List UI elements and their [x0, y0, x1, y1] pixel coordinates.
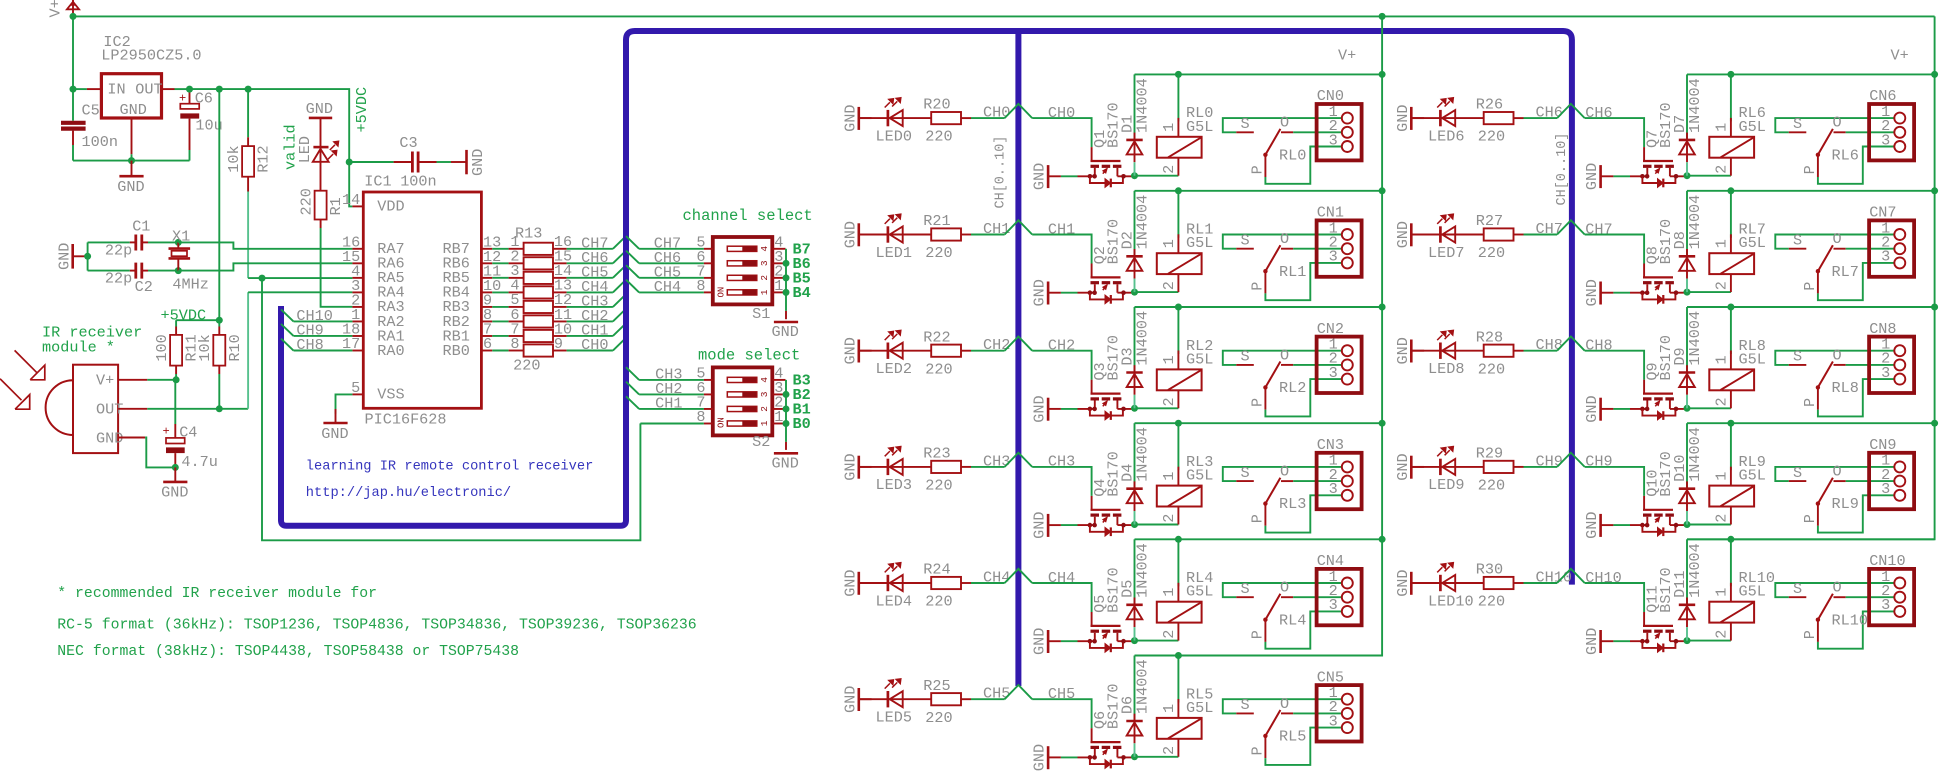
wire GND to Q11 source: [1613, 640, 1630, 642]
wire S1 commons to GND: [785, 249, 787, 311]
pin IC1 RB5 (11): [481, 277, 492, 279]
diode D2 1N4004: [1134, 191, 1136, 255]
connector CN3: [1317, 453, 1362, 509]
wire CH7 bus to gate: [1585, 235, 1644, 264]
svg-text:S: S: [1241, 348, 1250, 366]
ground GND (C4): [174, 467, 176, 482]
svg-text:GND: GND: [1394, 453, 1412, 480]
svg-text:LED6: LED6: [1428, 127, 1464, 145]
ground GND (Q5): [1047, 630, 1050, 653]
svg-text:RL5: RL5: [1279, 728, 1306, 746]
svg-text:1N4004: 1N4004: [1133, 543, 1151, 598]
svg-text:CH1: CH1: [1048, 220, 1075, 238]
svg-text:CH1: CH1: [983, 220, 1010, 238]
svg-text:CN0: CN0: [1317, 87, 1344, 105]
svg-text:LED9: LED9: [1428, 476, 1464, 494]
svg-text:LED3: LED3: [876, 476, 912, 494]
svg-text:C6: C6: [195, 89, 213, 107]
svg-text:220: 220: [1478, 244, 1505, 262]
capacitor C3 100n: [349, 161, 393, 163]
relay RL1 coil G5L: [1177, 191, 1179, 238]
supply symbol V+ (top left): [67, 2, 79, 10]
node rail-junction RL0: [1175, 71, 1182, 78]
ground GND (LED4): [857, 572, 860, 595]
resistor R13 element 2: [492, 262, 508, 264]
node R12 top: [245, 86, 252, 93]
svg-text:CH0: CH0: [1048, 104, 1075, 122]
node rail-junction RL5: [1175, 652, 1182, 659]
relay RL6 contact S-O-P: [1775, 118, 1894, 132]
LED valid: [320, 119, 322, 191]
svg-text:CH8: CH8: [1536, 336, 1563, 354]
svg-text:+: +: [163, 425, 170, 439]
svg-text:1N4004: 1N4004: [1133, 659, 1151, 714]
svg-text:1: 1: [759, 289, 770, 295]
pin IC1 RA1 (18): [352, 335, 363, 337]
svg-text:O: O: [1833, 230, 1842, 248]
svg-text:CN9: CN9: [1869, 436, 1896, 454]
svg-text:P: P: [1249, 282, 1267, 291]
svg-text:OUT: OUT: [135, 80, 162, 98]
diode D6 1N4004: [1134, 656, 1136, 720]
svg-text:G5L: G5L: [1186, 350, 1213, 368]
svg-text:100n: 100n: [82, 133, 118, 151]
wire CH9 to bus: [1524, 466, 1558, 468]
pin IC1 RA5 (4): [352, 277, 363, 279]
svg-text:GND: GND: [1031, 628, 1049, 655]
svg-text:GND: GND: [1583, 395, 1601, 422]
svg-text:R28: R28: [1476, 328, 1503, 346]
wire GND to Q8 source: [1613, 292, 1630, 294]
svg-text:CH[0..10]: CH[0..10]: [994, 136, 1009, 209]
svg-text:2: 2: [1160, 397, 1178, 406]
svg-text:CH8: CH8: [296, 336, 323, 354]
svg-text:S: S: [1241, 232, 1250, 250]
svg-text:VSS: VSS: [377, 385, 404, 403]
svg-text:3: 3: [1329, 364, 1338, 382]
bus ripper CH6: [1557, 104, 1585, 118]
wire GND to Q5 source: [1061, 640, 1078, 642]
svg-text:GND: GND: [772, 323, 799, 341]
svg-text:CH7: CH7: [1585, 220, 1612, 238]
pin IC1 RA3 (2): [352, 306, 363, 308]
svg-text:1: 1: [1160, 704, 1178, 713]
svg-text:10k: 10k: [196, 334, 214, 361]
svg-text:220: 220: [1478, 360, 1505, 378]
svg-text:2: 2: [1713, 514, 1731, 523]
pin IC1 RB0 (6): [481, 350, 492, 352]
svg-text:S: S: [1793, 115, 1802, 133]
svg-text:22p: 22p: [105, 269, 132, 287]
wire crystal to RA6: [178, 263, 352, 270]
svg-text:CN7: CN7: [1869, 204, 1896, 222]
relay RL3 coil G5L: [1177, 423, 1179, 470]
wire GND to Q9 source: [1613, 408, 1630, 410]
connector CN9: [1869, 453, 1914, 509]
svg-text:GND: GND: [1583, 163, 1601, 190]
node drain junction ch8: [1684, 405, 1691, 412]
node +5V at C6: [186, 86, 193, 93]
svg-text:8: 8: [696, 277, 705, 295]
resistor R22: [931, 345, 961, 357]
diode D10 1N4004: [1686, 423, 1688, 487]
bus ripper CH0: [1005, 104, 1033, 118]
wire V+ rail channel 0: [1135, 73, 1383, 75]
svg-text:P: P: [1249, 746, 1267, 755]
node drain junction ch6: [1684, 172, 1691, 179]
svg-text:P: P: [1249, 165, 1267, 174]
wire +5VDC node: [176, 319, 219, 321]
S1 element 4: [727, 246, 757, 251]
wire CH10 bus to gate: [1585, 583, 1644, 612]
relay RL5 contact S-O-P: [1223, 699, 1342, 713]
node module V+: [173, 376, 180, 383]
svg-text:NEC format (38kHz): TSOP4438,: NEC format (38kHz): TSOP4438, TSOP58438 …: [57, 644, 519, 660]
ground GND (LED9): [1410, 456, 1413, 479]
svg-text:S: S: [1241, 696, 1250, 714]
svg-text:4: 4: [759, 377, 770, 383]
svg-text:2: 2: [1713, 630, 1731, 639]
diode D3 1N4004: [1134, 307, 1136, 371]
svg-text:V+: V+: [47, 0, 65, 18]
connector CN10: [1869, 569, 1914, 625]
bus ripper CH9: [281, 324, 294, 336]
svg-text:CH4: CH4: [983, 569, 1010, 587]
svg-text:RL1: RL1: [1279, 263, 1306, 281]
wire LED4 row: [859, 582, 931, 584]
ground GND (LED6): [1410, 107, 1413, 130]
svg-text:G5L: G5L: [1186, 583, 1213, 601]
S2 element 2: [727, 406, 757, 411]
svg-text:RL9: RL9: [1832, 495, 1859, 513]
wire RA5 to S2 pin 8: [640, 422, 704, 424]
wire CH1 bus to gate: [1032, 235, 1091, 264]
pin S2 4 / net B3: [772, 379, 785, 381]
wire V+ rail channel 8: [1687, 306, 1935, 308]
ground GND (Q11): [1599, 630, 1602, 653]
wire CH3 bus to gate: [1032, 467, 1091, 496]
svg-text:G5L: G5L: [1186, 467, 1213, 485]
svg-text:CH5: CH5: [983, 685, 1010, 703]
capacitor C2 22p: [88, 270, 130, 272]
IR receiver module body: [73, 365, 118, 453]
resistor R1 220: [315, 191, 327, 220]
svg-text:C1: C1: [132, 218, 150, 236]
relay RL7 coil G5L: [1730, 191, 1732, 238]
wire CH9 bus to gate: [1585, 467, 1644, 496]
svg-text:LED4: LED4: [876, 592, 912, 610]
svg-text:GND: GND: [1394, 221, 1412, 248]
wire V+ rail channel 5: [1135, 655, 1383, 657]
bus ripper CH0 (into bus): [613, 338, 626, 351]
wire S2 commons to GND: [785, 380, 787, 442]
transistor Q7 BS170: [1643, 147, 1645, 161]
wire crystal to RA7: [178, 242, 352, 248]
wire LED10 row: [1411, 582, 1483, 584]
wire GND to Q10 source: [1613, 524, 1630, 526]
bus ripper CH5 (into bus): [613, 265, 626, 278]
transistor Q5 BS170: [1091, 612, 1093, 626]
capacitor C4 4.7u: [174, 380, 176, 424]
svg-text:GND: GND: [55, 243, 73, 270]
svg-text:10k: 10k: [225, 145, 243, 172]
svg-text:1: 1: [1160, 355, 1178, 364]
wire GND to Q7 source: [1613, 175, 1630, 177]
resistor R13 element 8: [492, 350, 508, 352]
pin S1 4 / net B7: [772, 248, 785, 250]
svg-text:2: 2: [1160, 746, 1178, 755]
resistor R27: [1484, 228, 1514, 240]
svg-text:1N4004: 1N4004: [1686, 311, 1704, 366]
svg-text:CH1: CH1: [655, 394, 682, 412]
svg-text:S: S: [1241, 464, 1250, 482]
transistor Q4 BS170: [1091, 496, 1093, 510]
LED LED1: [887, 226, 890, 242]
ground GND (Q7): [1599, 165, 1602, 188]
resistor R13 element 7: [492, 335, 508, 337]
pin IC1 RB2 (8): [481, 320, 492, 322]
svg-text:+5VDC: +5VDC: [353, 87, 371, 133]
svg-text:RL2: RL2: [1279, 379, 1306, 397]
svg-text:1N4004: 1N4004: [1133, 311, 1151, 366]
svg-text:RB0: RB0: [443, 342, 470, 360]
svg-text:1N4004: 1N4004: [1133, 78, 1151, 133]
svg-text:3: 3: [1329, 712, 1338, 730]
bus ripper CH5: [1005, 685, 1033, 699]
svg-text:RL3: RL3: [1279, 495, 1306, 513]
wire LED3 row: [859, 466, 931, 468]
svg-text:CN5: CN5: [1317, 668, 1344, 686]
wire LED7 row: [1411, 234, 1483, 236]
svg-text:GND: GND: [1394, 337, 1412, 364]
node rail-junction V+ ch3: [1379, 420, 1386, 427]
svg-text:O: O: [1833, 579, 1842, 597]
ground GND (LED3): [857, 456, 860, 479]
pin IC1 RB3 (9): [481, 306, 492, 308]
connector CN1: [1317, 220, 1362, 276]
pin IC1 RB6 (12): [481, 262, 492, 264]
svg-text:2: 2: [1713, 281, 1731, 290]
LED LED3: [887, 459, 890, 475]
capacitor C6 10u: [189, 89, 191, 104]
ground GND (Q4): [1047, 514, 1050, 537]
wire GND to Q1 source: [1061, 175, 1078, 177]
svg-text:GND: GND: [120, 101, 147, 119]
node rail-junction RL1: [1175, 187, 1182, 194]
pin S1 3 / net B6: [772, 262, 785, 264]
wire drain junction to relay pin 2: [1135, 175, 1179, 177]
svg-text:1: 1: [1713, 123, 1731, 132]
svg-text:S1: S1: [752, 305, 770, 323]
ground GND (IC2): [131, 161, 133, 177]
svg-text:3: 3: [1881, 131, 1890, 149]
bus ripper CH4: [1005, 569, 1033, 583]
pin IC1 RB7 (13): [481, 248, 492, 250]
ground GND (Q6): [1047, 746, 1050, 769]
svg-text:3: 3: [1329, 248, 1338, 266]
svg-text:4: 4: [759, 246, 770, 252]
wire LED6 row: [1411, 117, 1483, 119]
svg-text:6: 6: [483, 335, 492, 353]
resistor R28: [1484, 345, 1514, 357]
wire V+ rail channel 9: [1687, 422, 1935, 424]
diode D11 1N4004: [1686, 539, 1688, 603]
wire LED1 row: [859, 234, 931, 236]
svg-text:CH9: CH9: [1536, 452, 1563, 470]
transistor Q10 BS170: [1643, 496, 1645, 510]
svg-text:1: 1: [1713, 472, 1731, 481]
svg-text:G5L: G5L: [1739, 350, 1766, 368]
svg-text:220: 220: [925, 244, 952, 262]
svg-text:IC1: IC1: [364, 172, 391, 190]
wire CH0 bus to gate: [1032, 118, 1091, 147]
wire GND mini-rail under IC2: [73, 160, 190, 162]
svg-text:P: P: [1801, 514, 1819, 523]
node rail-junction V+ ch9: [1931, 420, 1938, 427]
wire CH2 to S2 pin 6: [626, 382, 639, 395]
svg-text:R20: R20: [923, 96, 950, 114]
node rail-junction RL3: [1175, 420, 1182, 427]
wire CH1 to bus: [971, 234, 1005, 236]
svg-text:IN: IN: [107, 80, 125, 98]
node crystal gnd: [84, 253, 91, 260]
svg-text:3: 3: [1881, 248, 1890, 266]
wire CH4 bus to gate: [1032, 583, 1091, 612]
pin IC1 RB4 (10): [481, 291, 492, 293]
ground GND (LED7): [1410, 223, 1413, 246]
svg-text:V+: V+: [1891, 47, 1909, 65]
svg-text:1: 1: [1160, 472, 1178, 481]
svg-text:GND: GND: [1583, 512, 1601, 539]
svg-text:RL4: RL4: [1279, 611, 1306, 629]
svg-text:22p: 22p: [105, 242, 132, 260]
wire GND to Q2 source: [1061, 292, 1078, 294]
svg-text:CH4: CH4: [654, 278, 681, 296]
node rail-junction RL2: [1175, 304, 1182, 311]
svg-text:P: P: [1249, 514, 1267, 523]
node C4 gnd: [172, 464, 179, 471]
svg-text:R22: R22: [923, 328, 950, 346]
LED LED9: [1439, 459, 1442, 475]
S1 element 2: [727, 275, 757, 280]
svg-text:GND: GND: [321, 425, 348, 443]
resistor R23: [931, 461, 961, 473]
svg-text:RL8: RL8: [1832, 379, 1859, 397]
svg-text:P: P: [1801, 630, 1819, 639]
wire LED5 row: [859, 698, 931, 700]
relay RL4 coil G5L: [1177, 539, 1179, 586]
LED LED4: [887, 575, 890, 591]
wire +5V rail to PIC: [190, 89, 353, 206]
power net V+ top rail: [73, 15, 1935, 17]
bus ripper CH9: [1557, 453, 1585, 467]
svg-text:S: S: [1793, 232, 1802, 250]
bus ripper CH2: [1005, 337, 1033, 351]
bus ripper CH8: [1557, 337, 1585, 351]
node IC2 input: [70, 86, 77, 93]
resistor R25: [931, 693, 961, 705]
wire IC2 OUT pin: [162, 88, 175, 90]
svg-text:GND: GND: [841, 686, 859, 713]
ground GND (S1): [785, 311, 787, 319]
wire V+ rail channel 4: [1135, 538, 1383, 540]
svg-text:O: O: [1280, 579, 1289, 597]
connector CN4: [1317, 569, 1362, 625]
svg-text:C5: C5: [82, 102, 100, 120]
IR ray arrow 1: [15, 350, 37, 372]
S1 element 1: [727, 290, 757, 295]
svg-text:CN2: CN2: [1317, 320, 1344, 338]
pin IC1 VSS 5: [352, 393, 363, 395]
wire CH7 to S1 pin 5: [626, 236, 639, 249]
wire drain junction to relay pin 2: [1687, 407, 1731, 409]
bus ripper CH3 (into bus): [613, 294, 626, 307]
svg-text:220: 220: [925, 128, 952, 146]
svg-text:R25: R25: [923, 677, 950, 695]
svg-text:RL0: RL0: [1279, 146, 1306, 164]
svg-text:RL10: RL10: [1832, 611, 1868, 629]
svg-text:2: 2: [1160, 281, 1178, 290]
svg-text:S: S: [1793, 580, 1802, 598]
bus ripper CH8: [281, 339, 294, 351]
svg-text:3: 3: [759, 260, 770, 266]
svg-text:GND: GND: [1583, 628, 1601, 655]
ground GND (LED5): [857, 688, 860, 711]
wire CH3 to S2 pin 5: [626, 367, 639, 380]
node rail-junction RL7: [1727, 187, 1734, 194]
LED LED2: [887, 343, 890, 359]
pin IC1 RA0 (17): [352, 350, 363, 352]
pin S2 1 / net B0: [772, 422, 785, 424]
svg-text:GND: GND: [841, 453, 859, 480]
wire V+ rail channel 7: [1687, 190, 1935, 192]
svg-text:CN6: CN6: [1869, 87, 1896, 105]
svg-text:GND: GND: [117, 178, 144, 196]
svg-text:C3: C3: [399, 134, 417, 152]
resistor R13 element 6: [492, 320, 508, 322]
svg-text:CH3: CH3: [1048, 453, 1075, 471]
diode D8 1N4004: [1686, 191, 1688, 255]
node drain junction ch10: [1684, 637, 1691, 644]
S1 element 3: [727, 261, 757, 266]
svg-text:220: 220: [925, 593, 952, 611]
wire LED0 row: [859, 117, 931, 119]
svg-text:R21: R21: [923, 212, 950, 230]
relay RL2 coil G5L: [1177, 307, 1179, 354]
svg-text:1N4004: 1N4004: [1133, 427, 1151, 482]
svg-text:CH2: CH2: [983, 336, 1010, 354]
pin IC1 VDD 14: [352, 205, 363, 207]
resistor R11 100: [175, 320, 177, 326]
svg-text:3: 3: [1881, 364, 1890, 382]
ground GND (Q8): [1599, 282, 1602, 305]
connector CN5: [1317, 685, 1362, 741]
svg-text:1: 1: [1160, 123, 1178, 132]
wire drain junction to relay pin 2: [1687, 175, 1731, 177]
svg-text:R27: R27: [1476, 212, 1503, 230]
svg-text:GND: GND: [1394, 569, 1412, 596]
S2 element 3: [727, 392, 757, 397]
svg-text:LED0: LED0: [876, 127, 912, 145]
connector CN2: [1317, 337, 1362, 393]
diode D1 1N4004: [1134, 74, 1136, 138]
svg-text:S2: S2: [752, 433, 770, 451]
wire V+ column (left half): [1379, 13, 1386, 20]
svg-text:G5L: G5L: [1739, 583, 1766, 601]
transistor Q8 BS170: [1643, 264, 1645, 278]
svg-text:C2: C2: [135, 278, 153, 296]
bus ripper CH10: [281, 309, 294, 321]
